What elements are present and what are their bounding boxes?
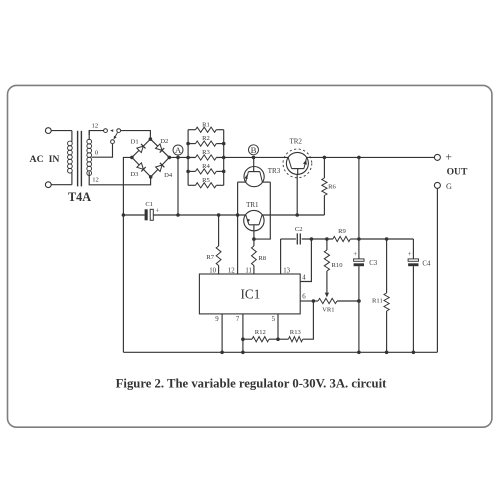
junction C3 rail VR1	[357, 299, 361, 303]
svg-text:R7: R7	[206, 254, 214, 261]
svg-text:B: B	[251, 145, 257, 155]
label AC IN	[30, 154, 60, 165]
switch position mark	[110, 129, 113, 132]
capacitor C2	[297, 233, 300, 244]
capacitor C3	[353, 250, 364, 266]
terminal AC-IN bottom	[45, 182, 51, 188]
resistor R1	[188, 127, 224, 132]
svg-text:6: 6	[302, 294, 306, 301]
svg-text:D1: D1	[131, 139, 139, 146]
svg-text:7: 7	[236, 316, 240, 323]
wire pin 13	[280, 239, 282, 274]
svg-text:TR1: TR1	[246, 201, 259, 209]
label C1	[145, 201, 153, 208]
junction R10 top	[325, 237, 329, 241]
caption	[116, 377, 387, 391]
junction C1 plus / node A branch	[176, 213, 180, 217]
junction bridge right node	[168, 156, 172, 160]
wire main positive rail right	[307, 156, 435, 158]
svg-text:Figure 2. The variable regulat: Figure 2. The variable regulator 0-30V. …	[116, 377, 387, 391]
wire R13 to pin6 wire	[303, 301, 314, 339]
svg-text:R10: R10	[332, 262, 344, 269]
terminal OUT G	[434, 182, 440, 188]
svg-text:IC1: IC1	[241, 286, 261, 301]
transistor TR2 body	[286, 152, 308, 174]
svg-text:4: 4	[302, 274, 306, 281]
wire R-block left rail	[187, 130, 189, 186]
junction TR2 base wire	[295, 213, 299, 217]
label C2	[295, 226, 303, 233]
wire C4 rail upper	[412, 239, 414, 259]
label R11	[372, 297, 383, 304]
label 12 (bottom tap)	[92, 176, 99, 183]
label R2	[202, 135, 210, 142]
svg-text:R3: R3	[202, 149, 210, 156]
wire switch to bridge top	[121, 131, 151, 140]
label D2	[160, 138, 168, 145]
wiper arrow R10 to VR1	[325, 293, 329, 298]
junction R11 top	[385, 237, 389, 241]
wire pin 5	[277, 314, 279, 339]
transistor TR3 body	[244, 167, 264, 187]
wire bridge arm T-R	[150, 139, 169, 157]
terminal OUT plus	[434, 154, 440, 160]
svg-text:R13: R13	[290, 329, 302, 336]
wire unregulated positive rail	[153, 214, 324, 216]
transformer T4A primary winding	[68, 131, 73, 185]
label R13	[290, 329, 302, 336]
wire TR3 collector stub	[262, 181, 270, 183]
switch contact S1a	[104, 129, 108, 133]
label pin 5	[272, 316, 276, 323]
svg-text:R5: R5	[202, 177, 210, 184]
svg-text:C3: C3	[369, 260, 378, 267]
svg-text:12: 12	[92, 123, 99, 130]
svg-text:C2: C2	[295, 226, 303, 233]
junction R-block left rail	[186, 142, 190, 146]
wire main positive rail	[169, 156, 288, 158]
resistor R11	[384, 239, 389, 352]
svg-text:+: +	[353, 250, 357, 258]
junction R-block left rail	[186, 156, 190, 160]
label pin 4	[302, 274, 306, 281]
transistor TR1 body	[244, 210, 264, 230]
wire TR3 emitter to pin 12	[237, 182, 239, 274]
transformer T4A secondary winding	[87, 131, 92, 176]
diode D1	[137, 144, 146, 153]
svg-text:C1: C1	[145, 201, 153, 208]
transistor TR1	[246, 215, 262, 239]
label TR2	[289, 138, 302, 146]
svg-text:T4A: T4A	[68, 190, 91, 204]
label R4	[202, 163, 210, 170]
resistor R4	[188, 169, 224, 174]
label G	[446, 182, 452, 191]
label plus	[445, 152, 452, 164]
wire G to ground rail	[436, 188, 438, 352]
label TR1	[246, 201, 259, 209]
transistor TR3	[244, 157, 262, 182]
svg-text:D4: D4	[164, 172, 173, 179]
label R8	[258, 255, 266, 262]
wire pin 6 stub	[300, 300, 313, 302]
svg-text:5: 5	[272, 316, 276, 323]
wire C2 left to pin 13	[281, 238, 296, 240]
transistor TR2 dashed outline	[283, 149, 312, 178]
junction C4 ground	[412, 351, 416, 355]
wire AC top lead	[51, 130, 72, 132]
resistor R9	[333, 236, 359, 241]
junction R-block right rail	[222, 170, 226, 174]
op-amp IC1	[199, 274, 300, 314]
wire C2 right to R9	[302, 238, 333, 240]
label OUT	[447, 167, 468, 178]
junction node A	[176, 156, 180, 160]
wire AC bottom lead	[51, 184, 72, 186]
resistor R6	[322, 157, 327, 215]
svg-text:+: +	[445, 152, 452, 164]
resistor R13	[278, 337, 303, 342]
svg-text:R11: R11	[372, 297, 383, 304]
junction TR3 emitter rail	[236, 213, 240, 217]
label 12 (top tap)	[92, 123, 99, 130]
resistor R3	[188, 155, 224, 160]
label R9	[338, 228, 346, 235]
svg-text:13: 13	[283, 267, 290, 274]
svg-text:C4: C4	[422, 260, 431, 267]
svg-text:G: G	[446, 182, 452, 191]
svg-text:+: +	[408, 250, 412, 258]
label TR3	[268, 167, 281, 175]
junction C3 rail top	[357, 156, 361, 160]
switch contact S1b	[117, 129, 121, 133]
wire TR3 collector to TR1 base	[254, 182, 270, 239]
junction TR1 base	[252, 237, 256, 241]
label R7	[206, 254, 214, 261]
wire bridge arm B-R	[151, 157, 170, 177]
svg-text:OUT: OUT	[447, 167, 468, 178]
junction pin 4 branch	[310, 237, 314, 241]
wire R-block right rail	[223, 130, 225, 186]
svg-text:D2: D2	[160, 138, 168, 145]
capacitor C4	[408, 250, 419, 266]
wire bridge arm L-B	[132, 157, 151, 177]
wire ground rail	[123, 351, 437, 353]
label pin 13	[283, 267, 290, 274]
switch contact S1c	[111, 140, 115, 144]
junction C1 minus	[122, 213, 126, 217]
wire node A to C1 plus	[177, 157, 179, 215]
junction R-block left rail	[186, 170, 190, 174]
transistor TR2	[288, 157, 307, 174]
junction bridge left node	[130, 156, 134, 160]
label D4	[164, 172, 173, 179]
wire pin 9	[221, 314, 223, 352]
wire ground to C1	[123, 214, 144, 216]
node B	[249, 145, 259, 155]
wire bridge arm L-T	[132, 139, 151, 157]
svg-text:R8: R8	[258, 255, 266, 262]
label pin 12	[228, 268, 235, 275]
label R3	[202, 149, 210, 156]
svg-text:9: 9	[215, 316, 219, 323]
wire secondary top tap	[89, 131, 103, 135]
wire bridge left to ground rail	[123, 157, 131, 352]
label 0 (center tap)	[95, 149, 99, 156]
capacitor C1	[145, 207, 160, 221]
transformer T4A core	[78, 131, 82, 187]
wire TR2 base lead	[296, 174, 298, 215]
resistor R8	[252, 239, 257, 274]
label D1	[131, 139, 139, 146]
svg-text:TR2: TR2	[289, 138, 302, 146]
label R10	[332, 262, 344, 269]
wire TR3 emitter stub	[238, 181, 246, 183]
label VR1	[322, 307, 334, 314]
label R12	[255, 329, 266, 336]
resistor R5	[188, 183, 224, 188]
svg-text:R9: R9	[338, 228, 346, 235]
resistor R12	[243, 337, 278, 342]
label pin 9	[215, 316, 219, 323]
svg-text:A: A	[175, 145, 182, 155]
svg-text:AC IN: AC IN	[30, 154, 60, 165]
diode D4	[156, 163, 165, 172]
wire pin 7	[242, 314, 244, 352]
label T4A	[68, 190, 91, 204]
wire C2 rail to C4	[359, 238, 414, 240]
junction R7 top	[217, 213, 221, 217]
label D3	[130, 171, 139, 178]
svg-text:R12: R12	[255, 329, 266, 336]
wire secondary bottom tap	[89, 172, 150, 185]
label C4	[422, 260, 431, 267]
junction R6 top	[323, 156, 327, 160]
junction R12 left	[241, 337, 245, 341]
junction R9 right	[357, 237, 361, 241]
resistor R7	[216, 215, 221, 274]
junction VR1 left / R13 branch	[312, 299, 316, 303]
label pin 7	[236, 316, 240, 323]
junction node B	[252, 156, 256, 160]
wire C3 rail upper	[358, 157, 360, 258]
resistor R2	[188, 141, 224, 146]
svg-text:R4: R4	[202, 163, 210, 170]
node A	[173, 145, 183, 155]
svg-text:+: +	[155, 207, 159, 215]
junction R11 ground	[385, 351, 389, 355]
label C3	[369, 260, 378, 267]
switch wiper arrow	[114, 133, 118, 140]
junction R12 right / pin 5	[276, 337, 280, 341]
label pin 10	[209, 268, 216, 275]
label pin 6	[302, 294, 306, 301]
label R5	[202, 177, 210, 184]
terminal AC-IN top	[45, 128, 51, 134]
svg-text:R6: R6	[328, 184, 336, 191]
label R1	[202, 121, 210, 128]
junction pin 7 ground	[241, 351, 245, 355]
junction R-block right rail	[222, 142, 226, 146]
svg-text:TR3: TR3	[268, 167, 281, 175]
junction pin 9 ground	[220, 351, 224, 355]
resistor R10	[324, 239, 329, 293]
svg-text:D3: D3	[130, 171, 139, 178]
svg-text:R2: R2	[202, 135, 210, 142]
label R6	[328, 184, 336, 191]
diode D3	[137, 163, 146, 172]
svg-text:12: 12	[92, 176, 99, 183]
junction VR1 right	[357, 299, 361, 303]
junction C3 rail ground	[357, 351, 361, 355]
label pin 11	[245, 268, 252, 275]
wire C4 rail lower	[412, 266, 414, 352]
potentiometer VR1	[313, 298, 359, 303]
diode D2	[156, 144, 165, 153]
svg-text:VR1: VR1	[322, 307, 334, 314]
wire secondary center tap	[92, 144, 113, 158]
junction bridge top node	[149, 137, 153, 141]
junction R-block right rail	[222, 156, 226, 160]
svg-text:R1: R1	[202, 121, 210, 128]
junction bridge bottom node	[149, 175, 153, 179]
wire C3 rail lower	[358, 266, 360, 352]
wire pin 4 stub	[300, 239, 311, 282]
